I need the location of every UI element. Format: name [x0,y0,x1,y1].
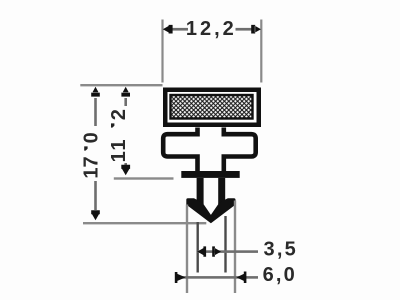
arrowhead 17,0 top [91,87,100,97]
arrowhead 17,0 bottom [91,210,100,220]
arrowhead 3,5 right [212,246,221,256]
svg-text:6,0: 6,0 [263,264,297,286]
svg-text:0: 0 [80,132,102,143]
extension line: top width left (12,2) [161,20,163,83]
profile: bulb left half outline [163,128,197,172]
svg-text:3,5: 3,5 [264,238,298,260]
profile: right leg [218,178,225,204]
dimension line 6,0 [176,276,258,279]
dimension line 11,2 [124,98,127,106]
extension line: dart left edge (6,0) [186,205,188,294]
profile: T-bar [181,171,239,178]
dimension line 17,0 [94,98,97,126]
extension line: top width right (12,2) [260,20,262,83]
arrowhead 11,2 bottom [121,165,130,176]
arrowhead 12,2 left [163,25,173,34]
arrowhead 6,0 right [237,272,247,284]
extension line: right leg edge (3,5) [224,216,226,273]
profile: magnet housing outer rectangle [163,88,261,128]
svg-text:11: 11 [108,138,130,163]
arrowhead 3,5 left [197,246,206,256]
extension line: horizontal at profile top (for 17,0 and 11,2) [80,84,162,86]
extension line: left leg edge (3,5) [197,222,199,273]
arrowhead 11,2 top [121,87,130,97]
profile: magnet hatch block [171,95,253,119]
svg-text:12,2: 12,2 [186,18,237,40]
extension line: horizontal at profile tip (for 17,0) [83,222,206,224]
dimension line 3,5 [198,250,259,253]
arrowhead 6,0 left [175,272,186,283]
extension line: horizontal at T-bar bottom (for 11,2) [114,177,174,179]
arrowhead 12,2 right [251,25,261,34]
svg-text:17: 17 [80,156,102,178]
extension line: dart right edge (6,0) [234,201,236,294]
profile: dart barb [186,198,235,223]
profile: left leg [197,178,204,204]
profile: bulb right half outline [224,128,256,172]
svg-text:2: 2 [108,109,130,120]
dimension line 12,2 [171,28,188,31]
